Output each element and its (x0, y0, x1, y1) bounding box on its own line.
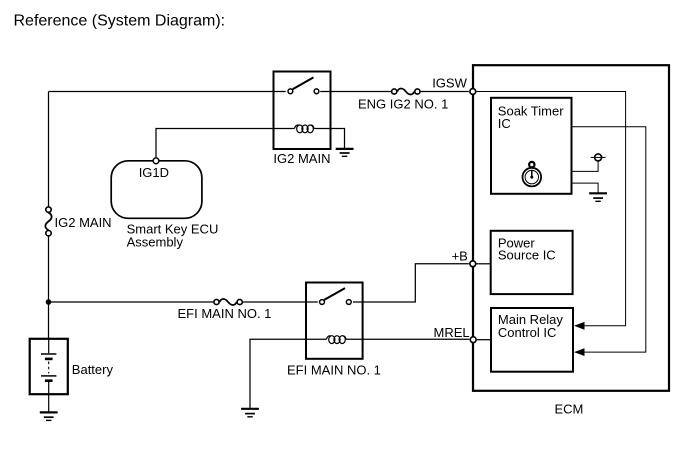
relay IG2 MAIN switch (274, 77, 331, 93)
svg-text:Reference (System Diagram):: Reference (System Diagram): (14, 13, 226, 30)
svg-text:EFI MAIN NO. 1: EFI MAIN NO. 1 (178, 306, 272, 321)
svg-text:MREL: MREL (434, 325, 470, 340)
arrowhead into Main Relay Control IC (lower) (574, 348, 585, 356)
wire: IGSW internal feedback to Main Relay Control IC (476, 92, 625, 326)
wire: fuse to EFI relay (242, 301, 306, 303)
fuse ENG IG2 NO. 1 (392, 88, 420, 94)
svg-text:Control IC: Control IC (498, 325, 557, 340)
junction node (battery feed) (46, 299, 52, 305)
wire: middle horizontal to EFI fuse (49, 301, 214, 303)
relay EFI MAIN NO. 1 box (306, 283, 363, 359)
label Smart Key ECU Assembly (127, 221, 219, 249)
svg-text:ECM: ECM (555, 402, 584, 417)
relay IG2 MAIN box (274, 72, 331, 150)
relay IG2 MAIN coil (274, 125, 331, 133)
svg-text:IC: IC (498, 116, 511, 131)
label Power Source IC (498, 235, 556, 262)
svg-text:IG1D: IG1D (139, 165, 169, 180)
arrowhead into Main Relay Control IC (upper) (574, 322, 585, 330)
ground (battery) (40, 412, 58, 420)
wire: EFI coil to MREL node (363, 338, 470, 340)
wire: coil to IG1D terminal (156, 129, 274, 158)
relay EFI MAIN coil (306, 336, 363, 344)
wire: left vertical upper segment (48, 92, 50, 208)
svg-text:IG2 MAIN: IG2 MAIN (273, 151, 330, 166)
node IG1D terminal (153, 158, 159, 164)
svg-text:IG2 MAIN: IG2 MAIN (55, 215, 112, 230)
Smart Key ECU Assembly box (111, 161, 202, 219)
Main Relay Control IC box (491, 308, 573, 372)
terminal circle symbol (591, 154, 606, 161)
wire: EFI coil to ground (250, 339, 306, 408)
ground (EFI MAIN relay coil) (241, 409, 259, 417)
wire: battery feed top horizontal (49, 91, 274, 93)
timer icon (523, 162, 542, 187)
wire: left vertical lower segment (48, 236, 50, 339)
label Soak Timer IC (498, 104, 564, 131)
wire: relay coil to ground (331, 129, 345, 149)
ground (IG2 MAIN relay) (336, 149, 354, 156)
node +B (470, 261, 476, 267)
wire: fuse to IGSW node (420, 91, 469, 93)
ground (soak timer) (589, 193, 607, 201)
svg-text:EFI MAIN NO. 1: EFI MAIN NO. 1 (287, 363, 381, 378)
Power Source IC box (491, 231, 573, 294)
svg-text:Assembly: Assembly (127, 234, 184, 249)
ECM box (473, 65, 669, 391)
svg-text:Battery: Battery (72, 362, 114, 377)
wire: +B node to Power Source IC (476, 263, 490, 265)
wire: soak timer to backup terminal (572, 162, 599, 172)
svg-text:+B: +B (452, 248, 468, 263)
node IGSW (470, 89, 476, 95)
node MREL (470, 337, 476, 343)
svg-text:Source IC: Source IC (498, 248, 556, 263)
wire: soak timer feedback to Main Relay Control IC (572, 127, 646, 352)
fuse IG2 MAIN (vertical) (45, 207, 51, 236)
svg-text:ENG IG2 NO. 1: ENG IG2 NO. 1 (358, 96, 448, 111)
wire: MREL node to Main Relay Control IC (477, 339, 491, 341)
battery cells (41, 339, 56, 412)
relay EFI MAIN switch (306, 288, 363, 304)
wire: soak timer to ground (572, 183, 599, 193)
wire: relay to ENG IG2 fuse (331, 91, 392, 93)
battery box (30, 339, 68, 394)
fuse EFI MAIN NO. 1 (214, 299, 242, 305)
svg-text:IGSW: IGSW (432, 76, 467, 91)
Soak Timer IC box (491, 98, 572, 194)
wire: relay contact to +B node (363, 264, 469, 302)
label Main Relay Control IC (498, 312, 564, 340)
